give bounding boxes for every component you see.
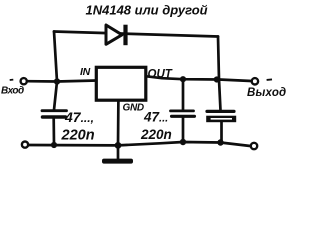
svg-text:IN: IN xyxy=(80,66,91,78)
svg-text:OUT: OUT xyxy=(148,69,173,81)
svg-text:47...,: 47..., xyxy=(64,109,94,125)
svg-text:GND: GND xyxy=(123,102,144,113)
svg-text:Вход: Вход xyxy=(1,86,24,97)
svg-text:220n: 220n xyxy=(140,127,172,142)
svg-text:Выход: Выход xyxy=(247,87,286,99)
svg-text:47...: 47... xyxy=(143,110,168,125)
svg-text:1N4148 или другой: 1N4148 или другой xyxy=(86,3,208,18)
svg-text:220n: 220n xyxy=(61,128,95,144)
